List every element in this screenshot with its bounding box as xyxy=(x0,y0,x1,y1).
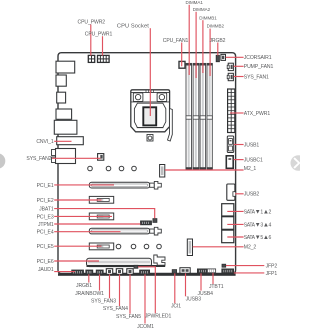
svg-text:PCI_E2: PCI_E2 xyxy=(37,198,54,204)
connector SYS_FAN1 xyxy=(227,73,233,80)
svg-text:PCI_E5: PCI_E5 xyxy=(37,244,54,250)
DIMM slot DIMMA2 xyxy=(193,63,200,169)
TPM header JTPM1 xyxy=(141,221,152,225)
svg-text:SYS_FAN3: SYS_FAN3 xyxy=(91,299,116,305)
svg-text:CNVI_1: CNVI_1 xyxy=(36,139,54,145)
svg-text:CPU_FAN1: CPU_FAN1 xyxy=(163,38,189,44)
fan connector SYS_FAN3 xyxy=(106,269,112,275)
svg-text:JFP2: JFP2 xyxy=(266,264,278,270)
rear IO box 3 xyxy=(57,92,66,103)
SATA connector SATA12 xyxy=(222,204,234,216)
svg-text:JUSB1: JUSB1 xyxy=(244,142,260,148)
leader PCI_E5 xyxy=(54,245,101,247)
SATA connector SATA34 xyxy=(222,217,234,230)
svg-text:JUSB3: JUSB3 xyxy=(186,297,202,303)
leader SATA56 xyxy=(227,236,243,238)
svg-text:CPU_PWR2: CPU_PWR2 xyxy=(78,20,106,26)
svg-text:SATA▼5▲6: SATA▼5▲6 xyxy=(244,234,272,241)
DIMM slot DIMMA1 xyxy=(186,63,192,169)
connector JRGB2 xyxy=(216,55,219,61)
leader SYS_FAN1 xyxy=(234,76,244,78)
leader JRGB1 xyxy=(88,274,90,282)
leader CPU_PWR2 xyxy=(90,25,92,56)
svg-text:M2_2: M2_2 xyxy=(244,245,257,251)
leader SYS_FAN3 xyxy=(109,274,111,298)
svg-text:JPWRLED1: JPWRLED1 xyxy=(145,314,172,320)
SATA connector SATA56 xyxy=(222,230,234,243)
leader CNVI_1 xyxy=(54,140,71,142)
LED power connector JPWRLED1 xyxy=(134,265,138,268)
RGB header JRGB1 xyxy=(86,270,93,274)
PCIe x16 slot PCI_E1 xyxy=(89,181,161,189)
M2_1 standoff hole A xyxy=(88,166,93,171)
COM port header JCOM1 xyxy=(140,270,150,274)
svg-text:SYS_FAN4: SYS_FAN4 xyxy=(103,306,128,312)
CPU socket U1 xyxy=(131,90,173,141)
svg-text:DIMMA2: DIMMA2 xyxy=(193,7,211,12)
carousel arrow right (page UI) xyxy=(291,155,307,171)
svg-text:JCORSAIR1: JCORSAIR1 xyxy=(244,55,272,61)
connector JUSB1 xyxy=(227,136,233,153)
rear IO box 1 xyxy=(56,61,75,73)
connector PUMP_FAN1 xyxy=(227,63,233,70)
front panel connector JFP2 xyxy=(222,264,226,267)
leader JCOM1 xyxy=(144,274,146,323)
carousel arrow left (page UI) xyxy=(0,153,5,168)
leader JUSB4 xyxy=(200,273,202,290)
svg-text:JCI1: JCI1 xyxy=(171,304,181,310)
leader DIMMA1 xyxy=(188,5,190,75)
connector JCORSAIR1 xyxy=(221,54,226,60)
svg-text:CPU Socket: CPU Socket xyxy=(117,23,149,29)
leader SATA12 xyxy=(227,210,243,212)
leader CPU_FAN1 xyxy=(181,43,183,67)
leader JTPM1 xyxy=(54,223,140,225)
svg-text:JUSBC1: JUSBC1 xyxy=(244,158,263,164)
rear IO box 4 xyxy=(56,109,72,119)
svg-text:JCOM1: JCOM1 xyxy=(137,324,154,330)
battery connector JBAT1 xyxy=(153,219,157,223)
svg-text:JBAT1: JBAT1 xyxy=(39,207,54,213)
CNVI_1 wifi module box xyxy=(57,137,84,145)
leader JUSB2 xyxy=(235,193,243,195)
leader JAUD1 xyxy=(54,271,75,273)
leader PUMP_FAN1 xyxy=(234,65,244,67)
svg-text:JFP1: JFP1 xyxy=(266,271,278,277)
ARGB header JRAINBOW1 xyxy=(96,270,103,274)
svg-text:ATX_PWR1: ATX_PWR1 xyxy=(244,111,271,117)
USB header JUSB3 xyxy=(180,268,190,274)
PCIe x1 slot PCI_E3 xyxy=(89,213,113,220)
rear IO box 2 xyxy=(56,75,66,86)
leader JBAT1 xyxy=(54,209,155,219)
board bottom thick edge xyxy=(58,273,236,276)
audio header JAUD1 xyxy=(72,270,84,274)
svg-text:JUSB2: JUSB2 xyxy=(244,192,260,198)
M2_1 standoff hole C xyxy=(119,166,124,171)
leader SYS_FAN4 xyxy=(119,274,121,306)
svg-text:SYS_FAN1: SYS_FAN1 xyxy=(244,74,269,80)
USB2 header JUSB2 xyxy=(227,184,236,200)
svg-text:DIMMA1: DIMMA1 xyxy=(186,0,204,5)
PCIe x1 slot PCI_E5 xyxy=(89,243,113,250)
leader JRGB2 xyxy=(217,43,219,56)
svg-text:DIMMB2: DIMMB2 xyxy=(207,24,225,29)
leader SYS_FAN5 xyxy=(129,274,131,313)
chassis intrusion connector JCI1 xyxy=(172,270,176,274)
leader JTBT1 xyxy=(212,273,214,284)
leader JCORSAIR1 xyxy=(226,56,244,58)
leader JUSB1 xyxy=(234,144,244,146)
M2_2 standoff hole C xyxy=(144,244,149,249)
front panel connector JFP1 xyxy=(222,269,234,273)
connector CPU_PWR2 (2x2 header) xyxy=(88,55,94,62)
leader PCI_E2 xyxy=(54,199,101,201)
svg-text:SATA▼3▲4: SATA▼3▲4 xyxy=(244,221,272,228)
fan connector SYS_FAN5 xyxy=(127,269,133,275)
leader ATX_PWR1 xyxy=(230,112,244,114)
leader JFP2 xyxy=(226,265,264,267)
leader SYS_FAN2 xyxy=(52,157,101,159)
M2_2 standoff hole B xyxy=(131,244,136,249)
leader DIMMA2 xyxy=(195,12,197,78)
M2_1 standoff hole B xyxy=(106,166,111,171)
svg-text:DIMMB1: DIMMB1 xyxy=(199,15,217,20)
svg-text:PCI_E3: PCI_E3 xyxy=(37,214,54,220)
red leader lines xyxy=(52,5,264,324)
M.2 connector M2_2 xyxy=(187,239,192,256)
svg-text:JUSB4: JUSB4 xyxy=(198,291,214,297)
PCIe x1 slot PCI_E2 xyxy=(89,196,113,203)
svg-text:JTBT1: JTBT1 xyxy=(209,284,224,290)
svg-text:JRAINBOW1: JRAINBOW1 xyxy=(75,291,104,297)
M2_2 standoff hole D xyxy=(157,244,162,249)
DIMM slot DIMMB2 xyxy=(207,63,213,169)
leader M2_2 xyxy=(193,246,244,248)
svg-text:JAUD1: JAUD1 xyxy=(38,267,54,273)
svg-text:SYS_FAN2: SYS_FAN2 xyxy=(26,156,51,162)
leader CPU_PWR1 xyxy=(102,36,104,55)
thunderbolt header JTBT1 xyxy=(207,269,215,273)
connector CPU_PWR1 (2x4 header) xyxy=(98,55,110,62)
PCIe x16 slot PCI_E6 (double profile) xyxy=(87,255,166,267)
svg-text:SYS_FAN5: SYS_FAN5 xyxy=(116,314,141,320)
M2_1 standoff hole D xyxy=(132,166,137,171)
board outline xyxy=(58,53,236,274)
leader PCI_E4 xyxy=(54,231,120,233)
leader JPWRLED1 xyxy=(138,267,155,314)
leader JCI1 xyxy=(174,273,176,303)
fan connector SYS_FAN4 xyxy=(116,269,122,275)
M.2 connector M2_1 xyxy=(160,165,165,178)
PCIe x16 slot PCI_E4 xyxy=(89,227,161,235)
rear IO USB stack box xyxy=(52,149,76,164)
svg-text:SATA▼1▲2: SATA▼1▲2 xyxy=(244,208,272,215)
leader JFP1 xyxy=(234,272,264,274)
svg-text:PCI_E4: PCI_E4 xyxy=(37,230,54,236)
leader JUSBC1 xyxy=(234,159,244,161)
leader DIMMB1 xyxy=(202,20,204,73)
rear IO box 5 xyxy=(54,120,77,134)
leader JUSB3 xyxy=(185,273,187,296)
svg-text:CPU_PWR1: CPU_PWR1 xyxy=(85,31,113,37)
leader SATA34 xyxy=(227,223,243,225)
leader M2_1 xyxy=(165,169,244,171)
leader PCI_E1 xyxy=(54,184,114,186)
leader PCI_E6 xyxy=(54,260,99,262)
connector CPU_FAN1 xyxy=(179,61,185,68)
svg-text:JRGB2: JRGB2 xyxy=(209,38,225,44)
USB header JUSB4 xyxy=(197,269,207,273)
connector ATX_PWR1 (2x12 header) xyxy=(228,89,235,133)
svg-text:JTPM1: JTPM1 xyxy=(38,222,54,228)
M2_2 standoff hole A xyxy=(116,244,121,249)
DIMM slot DIMMB1 xyxy=(200,63,206,169)
leader PCI_E3 xyxy=(54,215,112,217)
svg-text:PUMP_FAN1: PUMP_FAN1 xyxy=(244,64,274,70)
svg-text:JRGB1: JRGB1 xyxy=(76,283,92,289)
leader DIMMB2 xyxy=(209,29,211,76)
connector JUSBC1 xyxy=(226,156,233,169)
connector SYS_FAN2 xyxy=(98,154,104,161)
leader CPU Socket xyxy=(149,28,151,116)
svg-text:PCI_E1: PCI_E1 xyxy=(37,183,54,189)
svg-text:PCI_E6: PCI_E6 xyxy=(37,259,54,265)
svg-text:M2_1: M2_1 xyxy=(244,166,257,172)
leader JRAINBOW1 xyxy=(99,274,101,290)
